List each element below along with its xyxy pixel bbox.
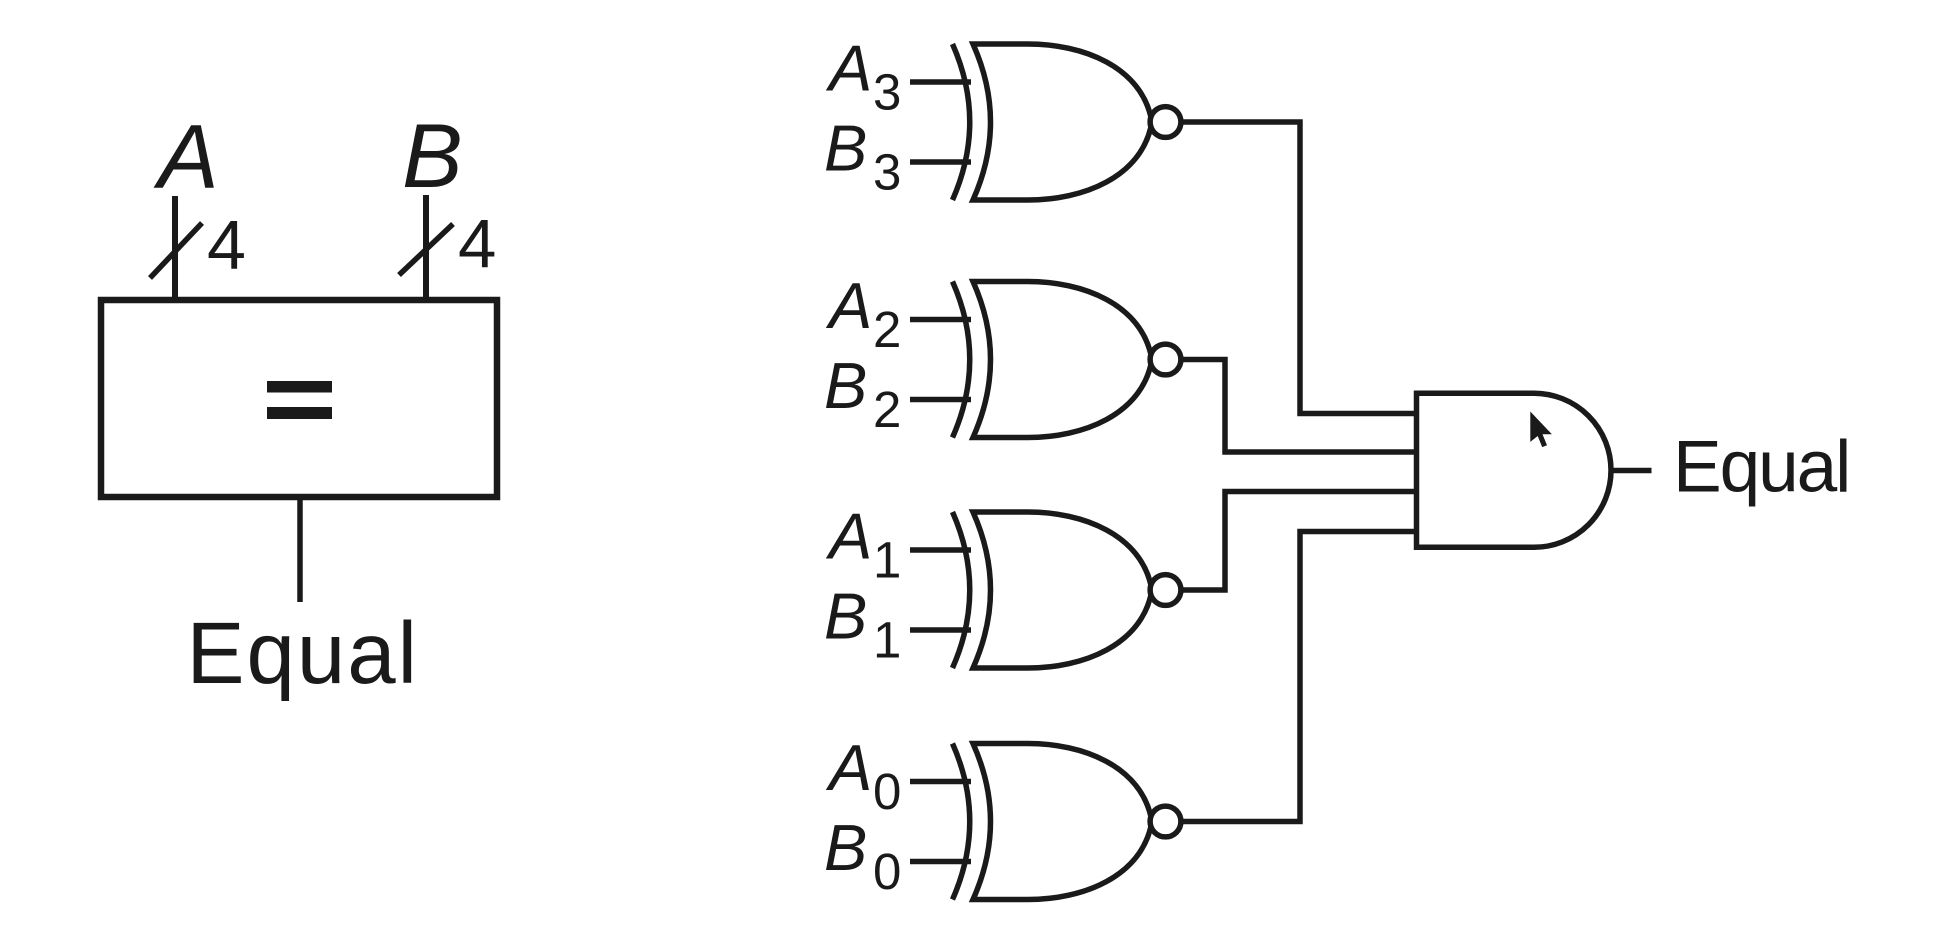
svg-text:A: A <box>825 32 872 105</box>
svg-text:3: 3 <box>873 64 901 121</box>
svg-text:1: 1 <box>873 612 901 669</box>
svg-text:Equal: Equal <box>1673 427 1849 508</box>
svg-text:B: B <box>824 349 867 422</box>
svg-text:4: 4 <box>207 206 246 284</box>
svg-text:2: 2 <box>873 381 901 438</box>
svg-text:Equal: Equal <box>187 605 420 702</box>
svg-text:A: A <box>825 500 872 573</box>
svg-text:3: 3 <box>873 144 901 201</box>
svg-text:A: A <box>825 269 872 342</box>
svg-text:B: B <box>824 112 867 185</box>
svg-text:A: A <box>153 107 219 208</box>
svg-text:0: 0 <box>873 843 901 900</box>
svg-text:A: A <box>825 731 872 804</box>
svg-text:B: B <box>824 811 867 884</box>
svg-text:2: 2 <box>873 301 901 358</box>
svg-text:0: 0 <box>873 763 901 820</box>
svg-text:B: B <box>824 580 867 653</box>
svg-text:4: 4 <box>458 205 496 282</box>
svg-text:1: 1 <box>873 532 901 589</box>
svg-text:B: B <box>402 106 463 207</box>
